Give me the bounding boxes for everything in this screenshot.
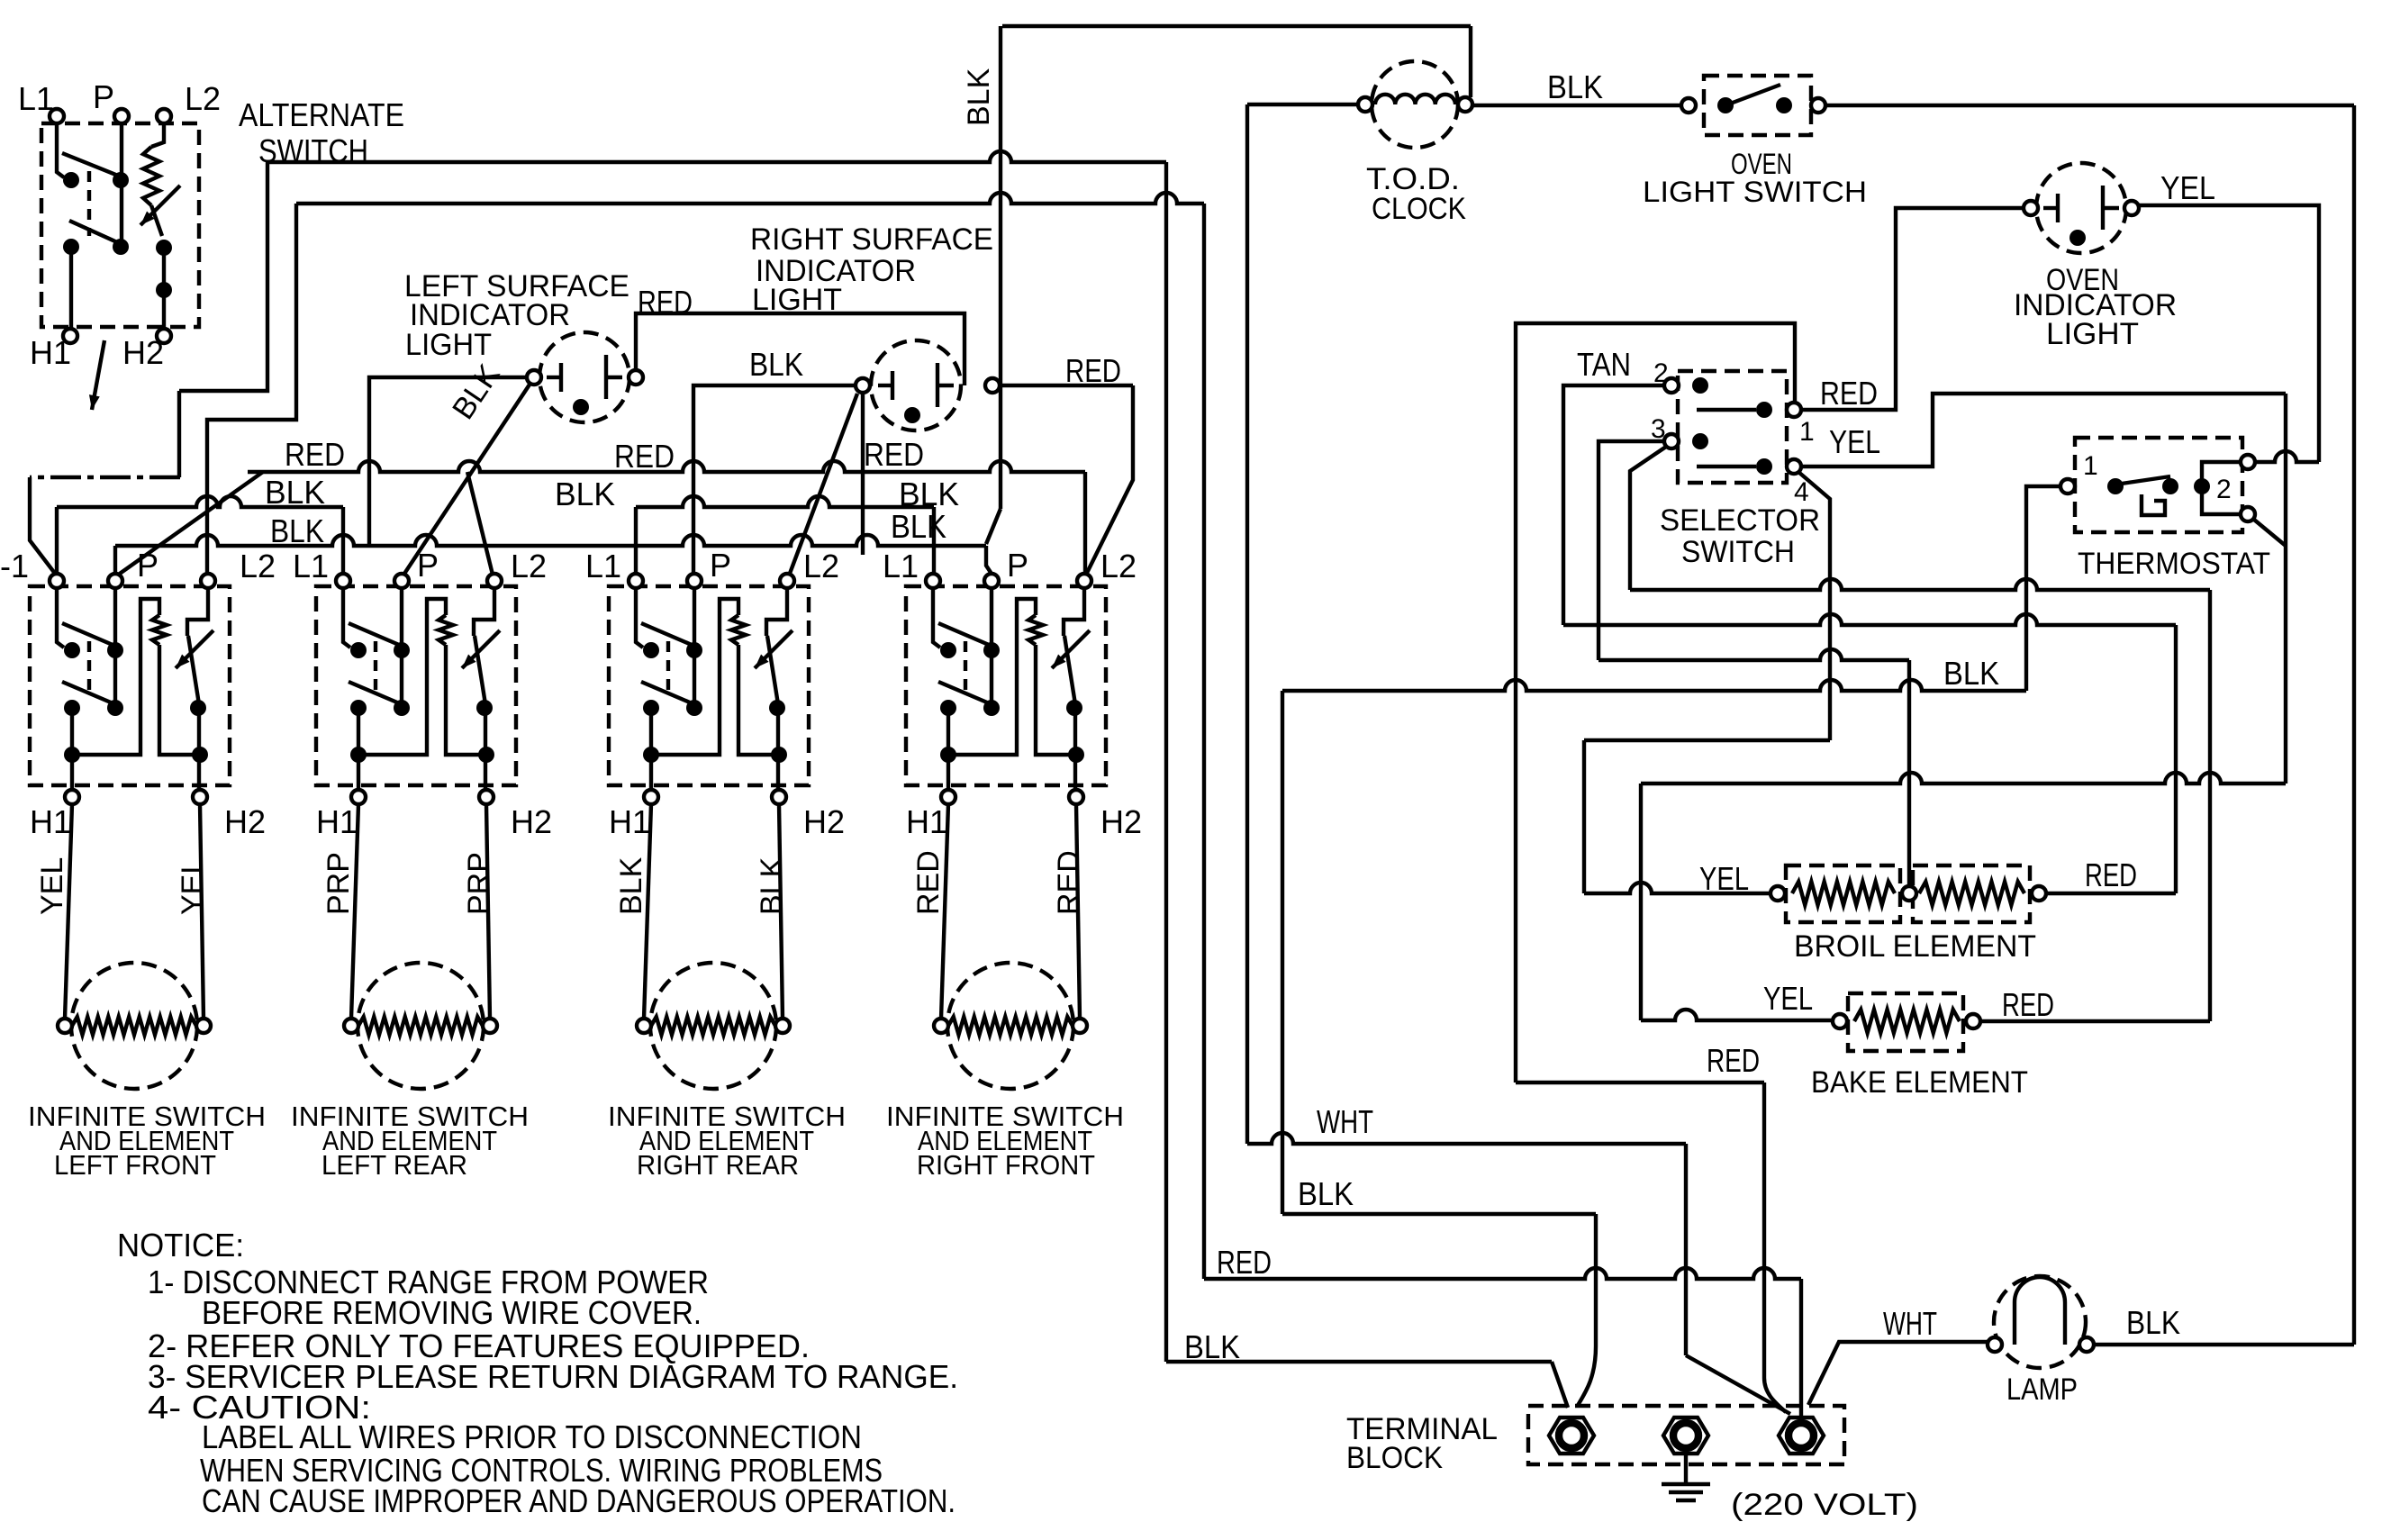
BLK bus B wire [636,496,934,507]
RED wire right-indicator right terminal to L2 of switch 4 [1000,384,1133,387]
WHT wire from TOD vertical to nut3 [1247,1133,1686,1144]
wire h2 TAN to broil right [1563,614,2176,625]
T.O.D. clock coil [1375,95,1455,104]
RED bus wire [248,461,1085,472]
WHT wire nut3 to lamp [1808,1342,1988,1405]
YEL wire selector 4 east and up over to thermostat feed [1801,394,2286,467]
RED wire from selector1 loop to nut3 [1516,1081,1764,1084]
svg-text:H1: H1 [30,803,71,840]
terminal L1 right front [926,574,940,588]
selector 3 diagonal to oven h1 [1630,447,1666,590]
terminal H2 left rear [479,790,494,804]
lamp filament [2015,1277,2065,1345]
svg-text:H2: H2 [122,334,164,371]
svg-text:RED: RED [1052,850,1086,915]
svg-text:P: P [137,547,158,584]
element 2 terminals [344,1019,358,1033]
svg-text:RED: RED [1217,1244,1272,1281]
broil element resistors [1792,882,1895,905]
thermostat terminal 1 [2060,479,2075,494]
wire feeder2 vertical down to RED bottom line [1202,204,1206,1279]
thermostat right terminals bracket [2202,462,2241,514]
svg-text:LIGHT SWITCH: LIGHT SWITCH [1643,176,1867,208]
big loop left vertical [1281,691,1284,1214]
RED bus diagonal to P of switch1 [117,472,263,575]
svg-text:1: 1 [2083,451,2098,481]
terminal P right front [984,574,999,588]
svg-text:L2: L2 [185,80,221,117]
alternate switch terminal L1 [50,109,64,123]
svg-text:(220 VOLT): (220 VOLT) [1731,1488,1918,1522]
svg-text:H1: H1 [906,803,947,840]
svg-text:BLK: BLK [962,68,996,126]
svg-text:BLK: BLK [265,474,325,511]
svg-text:BLK: BLK [899,476,959,512]
svg-text:SWITCH: SWITCH [1681,535,1795,569]
BLK vertical wire from top wire to P of switch 4 [999,26,1002,509]
element circle 1 [71,963,197,1089]
thermostat terminal1 wire west down to BLK h4 [2026,486,2060,691]
YEL wire to broil left [1584,883,1771,893]
element 2 resistor [358,1017,483,1035]
wire TOD west then down (WHT feed) [1247,103,1358,106]
svg-text:BLK: BLK [1184,1328,1240,1365]
internal contacts left front [57,588,64,648]
svg-text:BAKE ELEMENT: BAKE ELEMENT [1811,1065,2028,1100]
svg-text:YEL: YEL [1763,980,1813,1017]
wires H1/H2 to element 4 [941,804,948,1019]
internal contacts right rear [636,588,643,648]
RED wire bake right [1980,1019,2210,1023]
svg-text:H1: H1 [609,803,650,840]
terminal L2 left rear [487,574,502,588]
terminal block nut 2 [1663,1418,1708,1454]
wire y822 selector4 to YEL broil riser [1584,738,1830,742]
selector terminal 2 [1664,378,1679,393]
alternate switch terminal H1 [63,329,77,343]
svg-text:P: P [1007,547,1028,584]
element circle 2 [358,963,484,1089]
svg-text:BLK: BLK [2126,1304,2180,1341]
svg-text:RED: RED [1065,352,1121,389]
right surface indicator terminal right [985,378,1000,393]
terminal P right rear [687,574,702,588]
element circle 3 [650,963,776,1089]
svg-text:BLK: BLK [270,512,324,549]
svg-text:H2: H2 [511,803,552,840]
BLK pilot bus drop to P switch1 [113,546,117,574]
svg-text:CLOCK: CLOCK [1372,192,1466,226]
svg-text:H2: H2 [803,803,845,840]
infinite switch left rear (dashed box) [316,586,516,785]
thermostat dashed box [2075,438,2242,532]
left surface indicator light [539,332,629,422]
BLK wire right-indicator left terminal to P of switch 3 [693,385,856,574]
left surface indicator terminal left [527,370,541,385]
lamp terminals [1988,1337,2002,1352]
bake element terminals [1833,1014,1847,1028]
alternate switch internals [57,123,64,177]
svg-text:H1: H1 [316,803,358,840]
BLK pilot bus corner to P switch4 [986,546,992,574]
svg-text:L1: L1 [585,548,621,584]
element 3 resistor [651,1017,775,1035]
svg-text:BROIL ELEMENT: BROIL ELEMENT [1794,929,2036,964]
TAN wire selector 2 to oven h2 [1563,385,1664,625]
BLK wire from thermostat loop to nut1 [1282,1212,1596,1216]
selector terminal 3 [1664,434,1679,448]
wire oven light switch east to right edge down to lamp [1825,104,2354,107]
bake element dashed box [1848,993,1963,1051]
wire TOD east to oven light switch [1472,104,1681,107]
wire y870 YEL riser to bake YEL drop [1641,773,2286,784]
wire oven indicator left to selector RED riser [1801,208,2024,410]
wires H1/H2 to element 2 [351,804,358,1019]
wire feeder1 from chain line up to top-right [177,391,181,477]
left surface indicator terminal right [629,370,643,385]
terminal H1 left front [65,790,79,804]
wire oven indicator right YEL to thermostat [2139,205,2319,462]
terminal block nut 3 [1779,1418,1824,1454]
svg-text:BLK: BLK [891,508,946,545]
selector switch dashed box [1678,371,1787,483]
infinite switch right rear (dashed box) [609,586,809,785]
element 3 terminals [637,1019,651,1033]
alternate-switch pointer arrow [92,340,104,410]
svg-text:RED: RED [1707,1042,1760,1079]
svg-text:BLK: BLK [1547,68,1603,105]
oven light switch dashed box [1704,76,1811,135]
lamp dashed circle [1994,1276,2086,1368]
svg-text:-1: -1 [0,548,29,584]
svg-text:RIGHT REAR: RIGHT REAR [637,1149,799,1181]
YEL wire to bake left [1641,1010,1833,1020]
diagonal right-indicator to L2 of switch 3 [788,394,857,578]
svg-text:YEL: YEL [35,857,69,915]
alternate switch (dashed box) [41,123,199,327]
wire h1 selector3 to bake right [1630,579,2210,590]
svg-text:YEL: YEL [1829,423,1880,460]
svg-text:L1: L1 [18,80,54,117]
svg-text:WHT: WHT [1317,1103,1373,1140]
svg-text:NOTICE:: NOTICE: [117,1227,244,1264]
svg-text:YEL: YEL [1699,860,1749,897]
svg-text:BEFORE REMOVING WIRE COVER.: BEFORE REMOVING WIRE COVER. [202,1294,702,1331]
broil element terminals [1771,886,1785,901]
terminal H1 right front [941,790,955,804]
svg-text:LAMP: LAMP [2006,1372,2078,1407]
svg-text:BLK: BLK [1298,1175,1354,1212]
BLK wire from feeder1 to nut1 [1166,1360,1552,1363]
selector 1 riser to RED loop [1516,323,1795,1083]
svg-text:H2: H2 [1100,803,1142,840]
svg-text:PRP: PRP [462,852,496,915]
svg-text:LIGHT: LIGHT [752,283,842,317]
BLK bus A wire [57,496,343,507]
wire feeder1 vertical to BLK lower-left line [1164,162,1168,1362]
terminal P left rear [394,574,409,588]
element 4 resistor [948,1017,1073,1035]
wire left-indicator right terminal over to right indicator (RED) [636,313,965,385]
svg-text:H2: H2 [224,803,266,840]
BLK bus A drop to L1 switch2 [341,507,345,574]
svg-text:L2: L2 [511,548,547,584]
BLK bus B drop to L1 switch3 [634,507,638,574]
chain (alternate) wire to L1 of switch 1 [30,476,180,479]
svg-text:L1: L1 [883,548,919,584]
RED wire broil right [2046,892,2176,895]
alternate switch terminal P [114,109,129,123]
terminal L2 right rear [780,574,794,588]
terminal H2 right rear [772,790,786,804]
T.O.D. clock dashed circle [1372,61,1458,148]
infinite switch right front (dashed box) [906,586,1106,785]
terminal L1 left front [50,574,64,588]
BLK bus A drop to L1 switch1 [55,507,59,574]
svg-text:RIGHT SURFACE: RIGHT SURFACE [750,222,993,257]
element circle 4 [947,963,1073,1089]
svg-text:ALTERNATE: ALTERNATE [239,96,404,133]
terminal H1 right rear [644,790,658,804]
wires H1/H2 to element 3 [644,804,651,1019]
top wire to T.O.D. clock [1002,24,1471,28]
oven light switch terminals and contacts [1681,98,1696,113]
svg-text:P: P [417,547,439,584]
svg-text:L2: L2 [240,548,276,584]
internal contacts right front [933,588,940,648]
svg-text:P: P [710,547,731,584]
wire left-indicator left terminal west and down to pilot bus [369,377,527,546]
terminal P left front [108,574,122,588]
svg-text:RED: RED [638,284,693,321]
selector 3 left wire to oven h3 [1599,441,1664,660]
svg-text:P: P [93,78,114,115]
svg-text:CAN CAUSE IMPROPER AND DANGERO: CAN CAUSE IMPROPER AND DANGEROUS OPERATI… [202,1482,955,1519]
svg-text:RED: RED [285,436,345,473]
svg-text:LIGHT: LIGHT [405,328,492,362]
terminal block nut 1 [1549,1418,1594,1454]
svg-text:RED: RED [1820,375,1878,412]
oven indicator terminals [2024,201,2038,215]
element 1 resistor [72,1017,196,1035]
svg-text:L2: L2 [1100,548,1137,584]
BLK diagonal from left indicator to P of switch 2 [403,385,530,576]
svg-text:LEFT FRONT: LEFT FRONT [54,1149,216,1181]
thermostat contacts [2107,478,2124,494]
RED wire from feeder2 to nut3 [1204,1268,1801,1279]
svg-text:BLK: BLK [749,346,803,383]
svg-text:RED: RED [864,436,924,473]
T.O.D. clock terminals [1358,97,1372,112]
element 4 terminals [934,1019,948,1033]
BLK bus B drop to L1 switch4 [932,507,936,574]
svg-text:RIGHT FRONT: RIGHT FRONT [917,1149,1095,1181]
svg-text:BLK: BLK [614,856,648,915]
svg-text:LABEL ALL WIRES PRIOR TO DISCO: LABEL ALL WIRES PRIOR TO DISCONNECTION [202,1418,862,1455]
thermostat lower-right diagonal join YEL riser [2254,520,2286,546]
svg-text:THERMOSTAT: THERMOSTAT [2078,547,2270,581]
svg-text:RED: RED [614,438,675,475]
svg-text:YEL: YEL [176,857,210,915]
svg-text:L2: L2 [803,548,839,584]
svg-text:RED: RED [911,850,946,915]
terminal L2 left front [201,574,215,588]
wire h3 selector3-left to broil middle [1599,649,1909,660]
alternate switch resistor leg [151,123,164,147]
selector terminal 4 [1756,458,1772,475]
wire feeder2 from L2 of switch1 to top [207,204,296,574]
ground symbol [1684,1454,1688,1484]
terminal H2 right front [1069,790,1083,804]
broil element dashed boxes [1786,865,1900,922]
svg-text:BLK: BLK [555,476,615,512]
oven indicator light [2036,163,2126,253]
terminal H2 left front [193,790,207,804]
svg-text:RED: RED [2085,856,2137,893]
svg-text:PRP: PRP [322,852,356,915]
svg-text:TAN: TAN [1577,346,1631,383]
diagonal RED bus to L2 of switch 2 [467,472,493,575]
bake element resistor [1854,1010,1960,1033]
selector terminal 1 [1756,402,1772,418]
BLK pilot bus wire [115,535,986,546]
infinite switch left front (dashed box) [30,586,230,785]
terminal L1 left rear [336,574,350,588]
right surface indicator light [871,340,961,430]
svg-text:WHT: WHT [1883,1305,1937,1342]
terminal block dashed box [1528,1406,1844,1464]
RED bus right end down to L2 of switch 4 [1083,472,1087,574]
alternate switch terminal L2 [157,109,171,123]
wire h4 BLK from big loop to thermostat 1 [1282,680,2026,691]
svg-text:2: 2 [2216,475,2232,504]
svg-text:LEFT REAR: LEFT REAR [322,1149,467,1181]
svg-text:RED: RED [2002,986,2054,1023]
wires H1/H2 to element 1 [65,804,72,1019]
right surface indicator terminal left [856,378,870,393]
svg-text:SELECTOR: SELECTOR [1660,503,1820,538]
svg-text:BLK: BLK [755,856,789,915]
svg-text:L1: L1 [293,548,329,584]
terminal L2 right front [1077,574,1091,588]
svg-text:YEL: YEL [2160,169,2215,206]
svg-text:1: 1 [1799,417,1815,447]
alternate switch terminal H2 [157,329,171,343]
element 1 terminals [58,1019,72,1033]
svg-text:LIGHT: LIGHT [2046,317,2139,351]
internal contacts left rear [343,588,350,648]
svg-text:BLK: BLK [1943,655,1999,692]
terminal H1 left rear [351,790,366,804]
svg-text:H1: H1 [30,334,71,371]
selector 4 diagonal to YEL riser [1798,472,1830,740]
BLK wire lamp to right edge [2094,1343,2354,1346]
svg-text:BLOCK: BLOCK [1346,1441,1443,1475]
stub below right indicator left terminal [861,393,865,555]
terminal L1 right rear [629,574,643,588]
